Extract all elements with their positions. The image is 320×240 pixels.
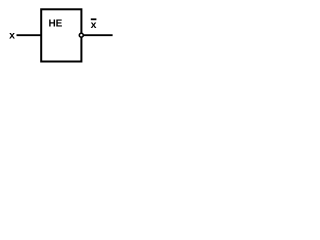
svg-text:x: x — [91, 19, 97, 31]
svg-text:x: x — [9, 30, 15, 42]
svg-text:HE: HE — [48, 19, 62, 30]
